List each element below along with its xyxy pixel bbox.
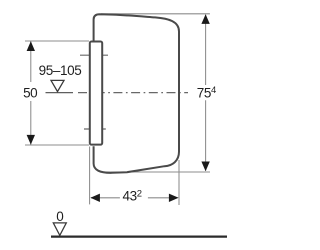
wire: extension line top (product top level) [101, 13, 210, 15]
arrowhead 75 down [201, 162, 209, 172]
wire: extension line bottom (product underside level) [103, 171, 210, 173]
arrowhead 50 down [27, 135, 35, 145]
arrowhead 50 up [27, 41, 35, 51]
wire: extension line 43-right [178, 160, 180, 205]
wire: extension line 50-bottom [25, 144, 89, 146]
arrowhead 43 left [90, 194, 100, 202]
dimension line 75 [205, 15, 207, 171]
svg-text:0: 0 [56, 209, 63, 224]
dimension line 50 [30, 42, 32, 145]
flush pipe housing box [90, 42, 102, 145]
wire: extension line 50-top [25, 40, 89, 42]
wire: lower connection dash-dot centerline [84, 128, 107, 130]
svg-text:432: 432 [123, 188, 142, 203]
wire: water level dash-dot centerline [78, 92, 188, 94]
arrowhead 75 up [201, 14, 209, 24]
dimension line 43 [91, 197, 178, 199]
level symbol triangle 95-105 [51, 80, 64, 91]
svg-text:95–105: 95–105 [39, 63, 82, 78]
floor line [51, 236, 227, 238]
svg-text:754: 754 [197, 85, 216, 101]
level symbol triangle 0 (floor datum) [53, 223, 66, 236]
wire: extension line 43-left [89, 147, 91, 205]
urinal body outline with supply pipe [94, 14, 179, 173]
arrowhead 43 right [169, 194, 179, 202]
wire: upper connection dash-dot centerline [80, 54, 109, 56]
wire: water level line solid segment [46, 92, 74, 94]
svg-text:50: 50 [23, 85, 37, 100]
